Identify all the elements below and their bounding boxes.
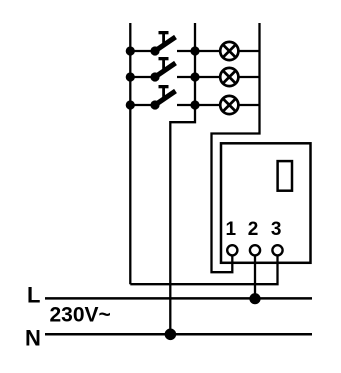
svg-text:L: L [27,282,40,307]
wire row 2 from left bus to switch pole [130,76,155,78]
wire lamp return bus vertical with jog to terminal 1 [212,23,260,272]
wire row 3 lamp to return bus [240,104,260,106]
push-button switch 3 [150,85,175,110]
junction dot terminal 2 on L [249,293,260,304]
terminal 2 [250,245,260,255]
junction dot row 2 left bus [126,72,135,81]
push-button switch 1 [150,31,175,56]
junction dot switched bus on N [165,329,177,341]
wire row 1 switch contact to lamp [177,50,220,52]
wire switched bus vertical with jog to N [170,23,195,334]
terminal 3 [272,245,282,255]
wire row 2 switch contact to lamp [177,76,220,78]
L line [45,297,312,300]
svg-text:N: N [25,326,41,351]
junction dot row 3 left bus [126,100,135,109]
wire row 3 from left bus to switch pole [130,104,155,106]
junction dot row 3 switched bus [190,100,199,109]
svg-text:2: 2 [248,219,259,240]
lamp 1 [220,42,238,60]
timer unit box [221,143,311,262]
lamp 2 [220,68,238,86]
terminal 1 [227,245,237,255]
wire row 1 from left bus to switch pole [130,50,155,52]
N line [45,333,312,336]
svg-text:3: 3 [271,219,282,240]
wire row 3 switch contact to lamp [177,104,220,106]
svg-text:230V~: 230V~ [50,304,111,327]
junction dot row 2 switched bus [190,72,199,81]
timer indicator window [278,161,292,191]
push-button switch 2 [150,57,175,82]
junction dot row 1 switched bus [190,46,199,55]
svg-text:1: 1 [226,219,237,240]
lamp 3 [220,96,238,114]
wire terminal 3 to left bus [130,256,277,284]
wire row 1 lamp to return bus [240,50,260,52]
wire terminal 2 to L [254,256,256,298]
wire left bus vertical [129,23,131,284]
wire row 2 lamp to return bus [240,76,260,78]
junction dot row 1 left bus [126,46,135,55]
